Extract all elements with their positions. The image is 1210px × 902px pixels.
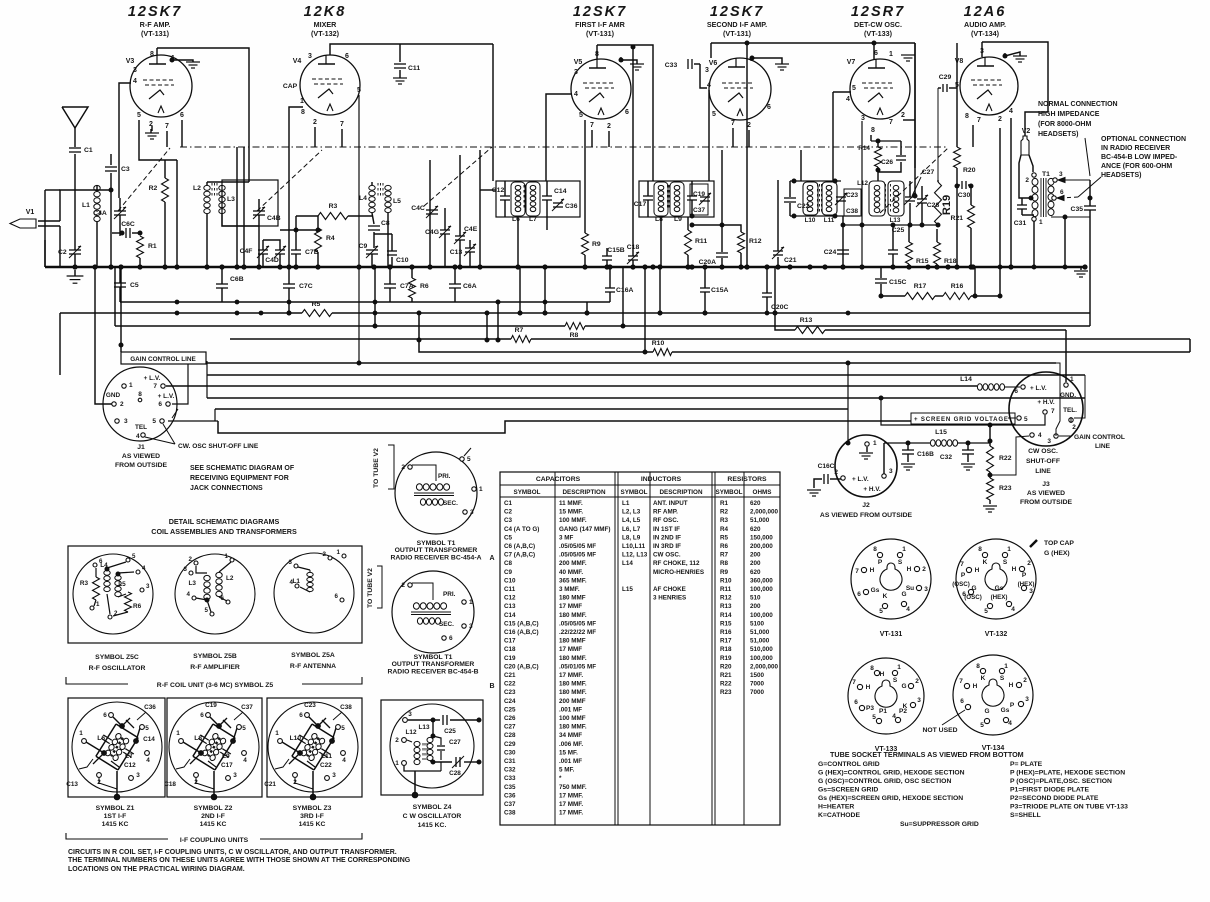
svg-text:H: H [973,683,978,690]
svg-text:PRI.: PRI. [443,591,456,598]
svg-text:L1: L1 [622,500,630,507]
svg-text:1: 1 [897,664,901,671]
svg-text:4: 4 [846,96,850,103]
svg-text:RECEIVING EQUIPMENT FOR: RECEIVING EQUIPMENT FOR [190,475,289,482]
svg-text:L10: L10 [290,735,302,742]
svg-text:3: 3 [861,115,865,122]
svg-text:L10,L11: L10,L11 [622,543,646,550]
svg-text:.006 MF.: .006 MF. [559,741,583,748]
svg-text:LOCATIONS ON THE PRACTICAL WIR: LOCATIONS ON THE PRACTICAL WIRING DIAGRA… [68,866,245,873]
svg-text:L9: L9 [674,216,682,223]
svg-text:1: 1 [469,599,473,606]
svg-text:R16: R16 [720,629,732,636]
svg-text:C28: C28 [504,732,516,739]
svg-text:4: 4 [1008,720,1012,727]
svg-text:4: 4 [243,757,247,764]
svg-text:L8: L8 [655,216,663,223]
svg-text:C3: C3 [121,166,130,173]
svg-text:GAIN CONTROL LINE: GAIN CONTROL LINE [130,356,196,363]
svg-text:CW OSC.: CW OSC. [1028,448,1058,455]
svg-text:6: 6 [854,699,858,706]
svg-text:C20 (A,B,C): C20 (A,B,C) [504,663,539,670]
svg-text:C9: C9 [504,569,513,576]
svg-text:C15A: C15A [711,287,728,294]
svg-text:BC-454-B LOW IMPED-: BC-454-B LOW IMPED- [1101,154,1178,161]
svg-text:C6 (A,B,C): C6 (A,B,C) [504,543,535,550]
svg-text:5: 5 [872,714,876,721]
svg-text:OHMS: OHMS [753,489,772,496]
svg-text:8: 8 [976,663,980,670]
svg-text:C23: C23 [846,192,858,199]
svg-text:V4: V4 [293,58,302,65]
svg-text:L7: L7 [125,753,133,760]
svg-text:5: 5 [879,608,883,615]
svg-text:GAIN CONTROL: GAIN CONTROL [1074,434,1125,441]
svg-text:7: 7 [340,121,344,128]
svg-text:C22: C22 [504,681,516,688]
svg-text:C32: C32 [504,767,516,774]
svg-text:R12: R12 [749,238,762,245]
svg-text:3: 3 [308,53,312,60]
svg-text:AS VIEWED: AS VIEWED [122,453,160,460]
svg-text:4: 4 [342,757,346,764]
svg-text:2: 2 [395,737,399,744]
svg-text:L6: L6 [97,735,105,742]
svg-text:G: G [984,708,989,715]
svg-text:R3: R3 [80,580,89,587]
svg-text:6: 6 [1060,189,1064,196]
svg-text:5: 5 [579,112,583,119]
svg-text:8: 8 [301,109,305,116]
svg-text:Su=SUPPRESSOR GRID: Su=SUPPRESSOR GRID [900,821,979,828]
svg-text:C19: C19 [205,702,217,709]
svg-text:3: 3 [124,418,128,425]
svg-text:C24: C24 [824,249,837,256]
svg-text:R4: R4 [326,235,335,242]
svg-text:V8: V8 [955,58,964,65]
svg-text:RADIO RECEIVER BC-454-A: RADIO RECEIVER BC-454-A [390,554,481,561]
svg-text:1: 1 [129,382,133,389]
svg-text:2: 2 [313,119,317,126]
svg-text:RF CHOKE, 112: RF CHOKE, 112 [653,560,700,567]
svg-text:C8: C8 [504,560,513,567]
svg-text:(HEX): (HEX) [991,594,1008,601]
svg-text:3: 3 [136,772,140,779]
svg-text:C3: C3 [504,517,513,524]
svg-text:1500: 1500 [750,672,765,679]
svg-text:CW OSC.: CW OSC. [653,552,681,559]
svg-text:7: 7 [1051,408,1055,415]
svg-text:100,000: 100,000 [750,655,773,662]
svg-text:H=HEATER: H=HEATER [818,804,854,811]
svg-text:AS VIEWED: AS VIEWED [1027,490,1065,497]
svg-text:.05/05/05 MF: .05/05/05 MF [559,552,596,559]
svg-text:R19: R19 [720,655,732,662]
svg-text:SYMBOL: SYMBOL [514,489,541,496]
svg-text:SEC.: SEC. [443,500,458,507]
svg-text:C12: C12 [124,762,136,769]
svg-text:1: 1 [1039,219,1043,226]
svg-text:V5: V5 [574,59,583,66]
svg-text:2,000,000: 2,000,000 [750,663,779,670]
svg-text:Gs (HEX)=SCREEN GRID, HEXODE S: Gs (HEX)=SCREEN GRID, HEXODE SECTION [818,795,963,802]
svg-text:L10: L10 [805,217,816,224]
svg-text:H: H [866,684,871,691]
svg-text:R22: R22 [720,681,732,688]
svg-text:AUDIO AMP.: AUDIO AMP. [964,20,1006,29]
svg-text:2: 2 [323,551,327,558]
svg-text:6: 6 [103,712,107,719]
svg-text:51,000: 51,000 [750,638,770,645]
svg-text:MICRO-HENRIES: MICRO-HENRIES [653,569,704,576]
svg-text:CAPACITORS: CAPACITORS [536,476,581,483]
svg-text:C18: C18 [504,646,516,653]
svg-text:HEADSETS): HEADSETS) [1101,172,1141,179]
svg-text:100 MMF.: 100 MMF. [559,517,587,524]
svg-text:C1: C1 [84,147,93,154]
svg-text:Su: Su [906,585,914,592]
svg-text:3: 3 [889,468,893,475]
svg-text:IN RADIO RECEIVER: IN RADIO RECEIVER [1101,145,1170,152]
svg-text:C19: C19 [693,191,705,198]
svg-text:C15 (A,B,C): C15 (A,B,C) [504,620,539,627]
svg-text:180 MMF: 180 MMF [559,595,586,602]
svg-text:P2=SECOND DIODE PLATE: P2=SECOND DIODE PLATE [1010,795,1099,802]
svg-text:15 MF.: 15 MF. [559,749,578,756]
svg-text:R10: R10 [720,577,732,584]
svg-text:SYMBOL Z5B: SYMBOL Z5B [193,653,237,660]
svg-text:R8: R8 [570,332,579,339]
svg-text:7: 7 [590,122,594,129]
svg-text:SYMBOL Z4: SYMBOL Z4 [413,804,452,811]
svg-text:5: 5 [132,553,136,560]
svg-text:180 MMF: 180 MMF [559,638,586,645]
svg-text:200 MMF.: 200 MMF. [559,560,587,567]
svg-text:R-F AMPLIFIER: R-F AMPLIFIER [190,664,240,671]
svg-text:C14: C14 [504,612,516,619]
svg-text:P: P [1010,702,1015,709]
svg-text:L8, L9: L8, L9 [622,534,641,541]
svg-text:C10: C10 [396,257,409,264]
svg-text:750 MMF.: 750 MMF. [559,784,587,791]
svg-text:C23: C23 [504,689,516,696]
svg-text:12SR7: 12SR7 [851,4,905,20]
svg-text:6: 6 [299,712,303,719]
svg-text:R21: R21 [720,672,732,679]
svg-text:R2: R2 [720,509,729,516]
svg-text:6: 6 [345,53,349,60]
svg-text:R6: R6 [720,543,729,550]
svg-text:C25: C25 [444,728,456,735]
svg-text:L1: L1 [82,202,90,209]
svg-text:.001 MF: .001 MF [559,706,582,713]
svg-text:G (OSC)=CONTROL GRID, OSC SECT: G (OSC)=CONTROL GRID, OSC SECTION [818,778,951,785]
svg-text:P2: P2 [899,708,907,715]
svg-text:A: A [489,555,494,562]
svg-text:1: 1 [395,760,399,767]
svg-text:C32: C32 [940,454,952,461]
svg-text:180 MMF.: 180 MMF. [559,655,587,662]
svg-text:1: 1 [889,51,893,58]
svg-text:7: 7 [165,123,169,130]
svg-text:S: S [1000,675,1005,682]
svg-text:OUTPUT TRANSFORMER: OUTPUT TRANSFORMER [392,661,475,668]
svg-text:.001 MF: .001 MF [559,758,582,765]
svg-text:H: H [907,566,912,573]
svg-text:(OSC): (OSC) [964,594,982,601]
svg-text:C21: C21 [264,781,276,788]
svg-text:3RD I-F: 3RD I-F [300,813,324,820]
svg-text:C21: C21 [784,257,797,264]
svg-text:1: 1 [176,730,180,737]
svg-text:RF AMP.: RF AMP. [653,509,678,516]
svg-text:180 MMF.: 180 MMF. [559,612,587,619]
svg-text:17 MMF.: 17 MMF. [559,810,583,817]
svg-text:SHUT-OFF: SHUT-OFF [1026,458,1060,465]
svg-text:SYMBOL: SYMBOL [716,489,743,496]
svg-text:365 MMF.: 365 MMF. [559,577,587,584]
svg-text:+ H.V.: + H.V. [863,486,881,493]
svg-text:2: 2 [998,116,1002,123]
svg-text:4: 4 [892,713,896,720]
svg-text:C35: C35 [504,784,516,791]
svg-text:V7: V7 [847,59,856,66]
svg-text:5: 5 [341,725,345,732]
svg-text:(VT-132): (VT-132) [311,29,340,38]
svg-text:C27: C27 [449,739,461,746]
svg-text:LINE: LINE [1035,468,1051,475]
svg-text:C30: C30 [958,192,971,199]
svg-text:TEL.: TEL. [1063,407,1077,414]
svg-text:3: 3 [705,67,709,74]
svg-text:C5: C5 [504,534,513,541]
svg-text:3: 3 [574,69,578,76]
svg-text:1: 1 [1004,663,1008,670]
svg-text:C37: C37 [693,207,705,214]
svg-text:C W OSCILLATOR: C W OSCILLATOR [403,813,462,820]
svg-text:3: 3 [289,559,293,566]
svg-text:G: G [901,683,906,690]
svg-text:C7C: C7C [299,283,313,290]
svg-text:R1: R1 [148,243,157,250]
svg-text:TEL: TEL [135,424,147,431]
svg-text:H: H [870,567,875,574]
svg-text:R5: R5 [312,301,321,308]
svg-text:5: 5 [137,112,141,119]
svg-text:C28: C28 [927,202,940,209]
svg-text:SEC.: SEC. [439,621,454,628]
svg-text:L2, L3: L2, L3 [622,509,641,516]
svg-text:C25: C25 [504,706,516,713]
svg-text:AF CHOKE: AF CHOKE [653,586,686,593]
svg-text:L2: L2 [226,575,234,582]
svg-text:C38: C38 [340,704,352,711]
svg-text:L3: L3 [189,580,197,587]
svg-text:150,000: 150,000 [750,534,773,541]
svg-text:C33: C33 [665,62,678,69]
svg-text:H: H [1012,566,1017,573]
svg-text:NORMAL CONNECTION: NORMAL CONNECTION [1038,101,1118,108]
svg-text:3: 3 [133,67,137,74]
svg-text:3: 3 [469,623,473,630]
svg-text:P= PLATE: P= PLATE [1010,761,1043,768]
svg-text:+ L.V.: + L.V. [852,476,869,483]
svg-text:C6B: C6B [230,276,244,283]
svg-text:C20C: C20C [771,304,788,311]
svg-text:R9: R9 [592,241,601,248]
svg-text:B: B [489,683,494,690]
svg-text:(OSC): (OSC) [952,581,970,588]
svg-text:C17: C17 [504,638,516,645]
svg-text:2: 2 [120,401,124,408]
svg-text:L12, L13: L12, L13 [622,552,648,559]
svg-text:C7 (A,B,C): C7 (A,B,C) [504,552,535,559]
svg-text:C31: C31 [1014,220,1027,227]
svg-text:C33: C33 [504,775,516,782]
svg-text:C4G: C4G [425,229,439,236]
svg-text:620: 620 [750,500,761,507]
svg-text:6: 6 [857,591,861,598]
svg-text:R6: R6 [133,603,142,610]
svg-text:V3: V3 [126,58,135,65]
svg-text:.05/05/05 MF: .05/05/05 MF [559,620,596,627]
svg-text:R19: R19 [941,195,953,215]
svg-text:L14: L14 [622,560,633,567]
svg-text:SYMBOL T1: SYMBOL T1 [414,654,453,661]
svg-text:6: 6 [335,593,339,600]
svg-text:1: 1 [96,601,100,608]
svg-text:R14: R14 [720,612,732,619]
svg-text:40 MMF.: 40 MMF. [559,569,583,576]
svg-text:CAP: CAP [283,83,298,90]
svg-text:6: 6 [767,104,771,111]
svg-text:C16A: C16A [616,287,633,294]
svg-text:GANG (147 MMF): GANG (147 MMF) [559,526,610,533]
svg-text:R13: R13 [720,603,732,610]
svg-text:.05/01/05 MF: .05/01/05 MF [559,663,596,670]
svg-text:C2: C2 [58,249,67,256]
svg-text:R7: R7 [515,327,524,334]
svg-text:I-F COUPLING UNITS: I-F COUPLING UNITS [180,837,249,844]
svg-text:.22/22/22 MF: .22/22/22 MF [559,629,596,636]
svg-text:TO TUBE V2: TO TUBE V2 [367,568,374,608]
svg-text:2: 2 [1025,177,1029,184]
svg-text:L5: L5 [118,581,126,588]
svg-text:R-F ANTENNA: R-F ANTENNA [290,663,336,670]
svg-text:SYMBOL Z2: SYMBOL Z2 [194,805,233,812]
svg-text:12A6: 12A6 [964,4,1007,20]
svg-text:C4B: C4B [267,215,281,222]
svg-text:5: 5 [1024,416,1028,423]
svg-text:R14: R14 [858,145,870,152]
svg-text:4: 4 [146,757,150,764]
svg-text:4: 4 [187,591,191,598]
svg-text:(VT-131): (VT-131) [141,29,170,38]
svg-text:1ST I-F: 1ST I-F [104,813,127,820]
svg-text:.05/05/05 MF: .05/05/05 MF [559,543,596,550]
svg-text:8: 8 [138,391,142,398]
svg-text:1415 KC: 1415 KC [102,821,129,828]
svg-text:C4C: C4C [411,205,425,212]
svg-text:COIL ASSEMBLIES AND TRANSFORME: COIL ASSEMBLIES AND TRANSFORMERS [151,527,297,536]
svg-text:200: 200 [750,603,761,610]
svg-text:C26: C26 [881,159,893,166]
svg-text:R1: R1 [720,500,729,507]
svg-text:L14: L14 [960,376,972,383]
svg-text:5: 5 [205,607,209,614]
svg-text:S: S [1003,559,1008,566]
svg-text:R22: R22 [999,455,1012,462]
svg-text:3 HENRIES: 3 HENRIES [653,595,686,602]
svg-text:12SK7: 12SK7 [710,4,764,20]
svg-text:7: 7 [153,383,157,390]
svg-text:2: 2 [1072,424,1076,431]
svg-text:2: 2 [834,469,838,476]
svg-text:5: 5 [152,418,156,425]
svg-text:4: 4 [574,91,578,98]
svg-text:V1: V1 [26,209,35,216]
svg-text:C17: C17 [634,201,647,208]
svg-text:R5: R5 [720,534,729,541]
svg-text:+ SCREEN GRID VOLTAGE: + SCREEN GRID VOLTAGE [914,416,1008,423]
svg-text:SYMBOL T1: SYMBOL T1 [417,540,456,547]
svg-text:510,000: 510,000 [750,646,773,653]
svg-text:C15C: C15C [889,279,906,286]
svg-text:S=SHELL: S=SHELL [1010,812,1041,819]
svg-text:R23: R23 [999,485,1012,492]
svg-text:OUTPUT TRANSFORMER: OUTPUT TRANSFORMER [395,547,478,554]
svg-text:5: 5 [980,722,984,729]
svg-text:R3: R3 [720,517,729,524]
svg-text:6: 6 [449,635,453,642]
svg-text:1: 1 [1070,376,1074,383]
svg-text:JACK CONNECTIONS: JACK CONNECTIONS [190,485,263,492]
svg-text:SYMBOL: SYMBOL [621,489,648,496]
svg-text:VT-131: VT-131 [880,631,903,638]
svg-text:4: 4 [707,82,711,89]
svg-text:THE TERMINAL NUMBERS ON THESE: THE TERMINAL NUMBERS ON THESE UNITS AGRE… [68,857,411,864]
svg-text:GND.: GND. [1060,392,1076,399]
svg-text:R21: R21 [951,215,964,222]
svg-text:C16 (A,B,C): C16 (A,B,C) [504,629,539,636]
svg-text:C11: C11 [408,65,420,72]
svg-text:J3: J3 [1042,481,1050,488]
svg-text:L12: L12 [857,180,868,187]
svg-text:R18: R18 [720,646,732,653]
svg-text:Gs=SCREEN GRID: Gs=SCREEN GRID [818,787,878,794]
svg-text:+ H.V.: + H.V. [1037,399,1055,406]
svg-text:R17: R17 [720,638,732,645]
svg-text:ANT. INPUT: ANT. INPUT [653,500,688,507]
svg-text:200,000: 200,000 [750,543,773,550]
svg-text:RADIO RECEIVER BC-454-B: RADIO RECEIVER BC-454-B [387,668,478,675]
svg-text:DETAIL SCHEMATIC DIAGRAMS: DETAIL SCHEMATIC DIAGRAMS [169,517,280,526]
svg-text:C2: C2 [504,509,513,516]
svg-text:180 MMF.: 180 MMF. [559,724,587,731]
svg-text:G (HEX)=CONTROL GRID, HEXODE S: G (HEX)=CONTROL GRID, HEXODE SECTION [818,770,965,777]
svg-text:C10: C10 [504,577,516,584]
svg-text:+ L.V.: + L.V. [1030,385,1047,392]
svg-text:SECOND I-F AMP.: SECOND I-F AMP. [707,20,767,29]
svg-text:C21: C21 [504,672,516,679]
svg-text:R9: R9 [720,569,729,576]
svg-text:AS VIEWED FROM OUTSIDE: AS VIEWED FROM OUTSIDE [820,512,913,519]
svg-text:8: 8 [870,665,874,672]
svg-text:L13: L13 [418,724,429,731]
svg-text:1: 1 [79,730,83,737]
svg-text:2: 2 [901,112,905,119]
svg-text:R11: R11 [695,238,707,245]
